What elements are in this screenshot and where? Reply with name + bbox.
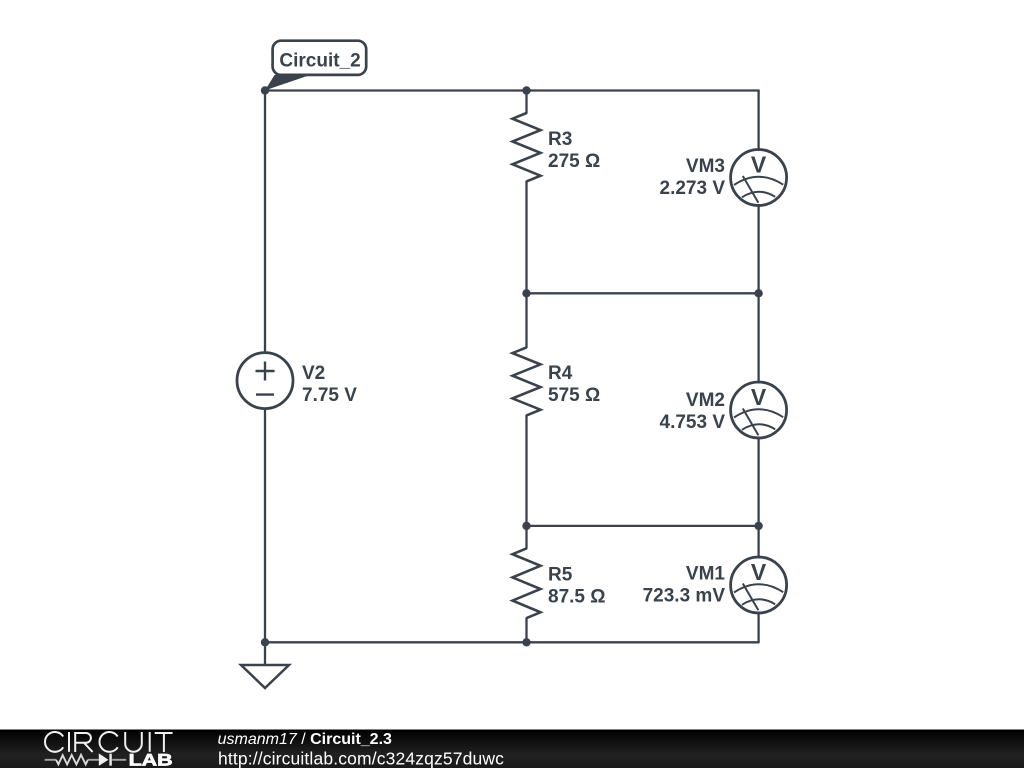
wire ground stub — [264, 642, 266, 665]
svg-text:275 Ω: 275 Ω — [548, 151, 600, 172]
wire VM1 bottom lead — [757, 613, 759, 643]
wire VM3 bottom lead — [757, 205, 759, 293]
svg-text:4.753 V: 4.753 V — [660, 412, 726, 433]
svg-text:2.273 V: 2.273 V — [660, 178, 726, 199]
node junction dot row2 middle — [522, 289, 530, 297]
svg-text:723.3 mV: 723.3 mV — [643, 586, 726, 607]
wire bottom net — [265, 641, 759, 643]
svg-text:VM3: VM3 — [686, 156, 725, 177]
wire VM3 top lead — [757, 91, 759, 151]
footer bar — [0, 730, 1024, 768]
svg-text:VM1: VM1 — [686, 564, 726, 585]
wire left column (V2 top lead) — [264, 91, 266, 353]
node junction dot top-left — [261, 86, 269, 94]
wire R4 top lead — [525, 293, 527, 347]
voltmeter VM3 — [731, 150, 787, 206]
resistor R3 — [513, 113, 541, 181]
node label Circuit_2 box — [273, 41, 367, 75]
node junction dot row3 middle — [522, 522, 530, 530]
voltage source V2 — [237, 353, 293, 409]
svg-text:R3: R3 — [548, 129, 572, 150]
voltmeter VM2 — [731, 382, 787, 438]
svg-text:R5: R5 — [548, 565, 573, 586]
wire left column (V2 bottom lead) — [264, 409, 266, 643]
wire R5 bottom lead — [525, 618, 527, 642]
node junction dot row3 right — [754, 522, 762, 530]
wire R5 top lead — [525, 526, 527, 549]
wire middle row3 — [527, 525, 759, 527]
node junction dot bottom-middle — [522, 638, 530, 646]
wire middle row2 — [527, 292, 759, 294]
wire VM2 bottom lead — [757, 438, 759, 526]
svg-text:V: V — [751, 559, 767, 585]
node junction dot row2 right — [754, 289, 762, 297]
wire VM1 top lead — [757, 526, 759, 558]
svg-text:R4: R4 — [548, 363, 573, 384]
resistor R4 — [513, 347, 541, 415]
svg-text:V2: V2 — [302, 363, 325, 384]
svg-text:575 Ω: 575 Ω — [548, 385, 600, 406]
voltmeter VM1 — [731, 557, 787, 613]
wire R3 top lead — [525, 91, 527, 114]
svg-text:V: V — [751, 384, 767, 410]
svg-text:7.75 V: 7.75 V — [302, 385, 357, 406]
svg-text:VM2: VM2 — [686, 390, 725, 411]
wire R4 bottom lead — [525, 415, 527, 526]
CircuitLab logo CIRCUIT word — [45, 732, 173, 752]
node label Circuit_2 callout tail — [265, 75, 311, 91]
svg-text:V: V — [751, 152, 767, 178]
node junction dot top-middle — [522, 86, 530, 94]
wire top net from node A to VM3 branch — [265, 89, 759, 91]
svg-text:87.5 Ω: 87.5 Ω — [548, 587, 606, 608]
svg-text:usmanm17 / Circuit_2.3: usmanm17 / Circuit_2.3 — [218, 731, 392, 748]
ground — [241, 665, 289, 688]
svg-text:http://circuitlab.com/c324zqz5: http://circuitlab.com/c324zqz57duwc — [218, 749, 504, 768]
node junction dot bottom-left — [261, 638, 269, 646]
svg-text:LAB: LAB — [129, 751, 173, 768]
wire VM2 top lead — [757, 293, 759, 382]
resistor R5 — [513, 548, 541, 618]
CircuitLab logo resistor-diode glyph — [45, 754, 127, 766]
wire R3 bottom lead — [525, 181, 527, 293]
svg-text:Circuit_2: Circuit_2 — [279, 51, 360, 72]
